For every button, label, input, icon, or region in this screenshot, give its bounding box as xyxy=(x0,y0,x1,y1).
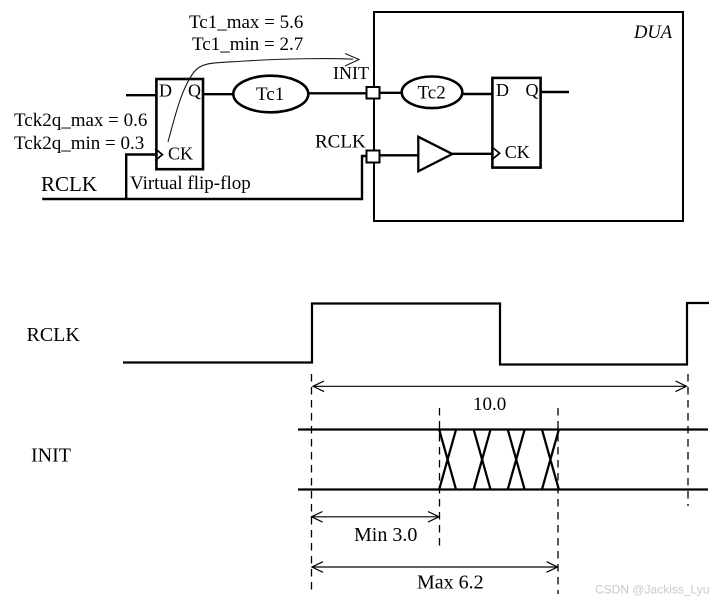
delay element Tc2 xyxy=(402,77,463,109)
INIT bus top line xyxy=(298,428,708,430)
dimension arrow Min 3.0 xyxy=(312,516,440,518)
bus transition X1 xyxy=(439,430,456,489)
svg-text:RCLK: RCLK xyxy=(315,132,366,153)
dashed guide line at second rising edge xyxy=(687,374,689,506)
clock wedge of U2 xyxy=(491,146,499,160)
wire: INIT node to Tc2 xyxy=(380,92,404,94)
clock wedge of U1 xyxy=(155,149,162,161)
flip-flop U1 (virtual flip-flop) body xyxy=(156,79,203,169)
wire: Q output of U2 xyxy=(540,91,569,93)
DUA box xyxy=(374,12,683,221)
wire: Q of U1 to Tc1 xyxy=(202,93,234,95)
svg-text:Tc1_max = 5.6: Tc1_max = 5.6 xyxy=(189,12,303,33)
svg-text:Min 3.0: Min 3.0 xyxy=(354,524,417,546)
svg-text:Max 6.2: Max 6.2 xyxy=(417,572,484,594)
RCLK waveform trace xyxy=(123,303,709,365)
svg-text:Tck2q_max = 0.6: Tck2q_max = 0.6 xyxy=(14,110,147,131)
wire: buffer to U2 CK xyxy=(453,153,493,155)
svg-text:INIT: INIT xyxy=(333,63,369,83)
svg-text:CSDN @Jackiss_Lyu: CSDN @Jackiss_Lyu xyxy=(595,583,709,597)
annotation curved arrow from CK to INIT xyxy=(168,59,353,142)
dashed guide line at min transition start xyxy=(439,408,441,550)
svg-text:RCLK: RCLK xyxy=(41,172,97,196)
bus transition X3 xyxy=(508,430,525,489)
wire: RCLK node to buffer xyxy=(380,154,420,156)
dimension arrow 10.0 xyxy=(313,385,687,387)
flip-flop U2 body xyxy=(492,78,540,168)
dashed guide line at first rising edge xyxy=(311,374,313,594)
buffer U3 xyxy=(418,137,452,172)
delay element Tc1 xyxy=(233,76,308,113)
wire: Tc1 to INIT node xyxy=(307,92,367,94)
svg-text:Q: Q xyxy=(526,80,539,100)
wire: RCLK branch up to U1 CK xyxy=(126,155,155,200)
dimension arrow Max 6.2 xyxy=(312,566,558,568)
svg-text:RCLK: RCLK xyxy=(27,324,81,346)
svg-text:D: D xyxy=(159,81,172,101)
bus transition X2 xyxy=(474,430,491,489)
svg-text:CK: CK xyxy=(505,142,530,162)
node INIT (boundary square) xyxy=(367,87,380,99)
svg-text:Tc1_min = 2.7: Tc1_min = 2.7 xyxy=(192,34,303,55)
svg-text:DUA: DUA xyxy=(633,23,673,43)
wire: D input of virtual flip-flop U1 xyxy=(126,94,157,96)
node RCLK (boundary square) xyxy=(367,151,380,163)
svg-text:10.0: 10.0 xyxy=(473,394,506,415)
INIT bus bottom line xyxy=(298,488,708,490)
svg-text:Tck2q_min = 0.3: Tck2q_min = 0.3 xyxy=(14,133,144,154)
svg-text:Tc1: Tc1 xyxy=(256,84,284,105)
svg-text:Tc2: Tc2 xyxy=(418,83,446,104)
svg-text:CK: CK xyxy=(168,144,193,164)
dashed guide line at max transition end xyxy=(557,408,559,594)
svg-text:Virtual flip-flop: Virtual flip-flop xyxy=(130,173,251,194)
wire: Tc2 to U2 D input xyxy=(463,93,494,95)
bus transition X4 xyxy=(542,430,559,489)
svg-text:INIT: INIT xyxy=(31,445,71,467)
svg-text:D: D xyxy=(496,80,509,100)
svg-text:Q: Q xyxy=(188,81,201,101)
wire: RCLK input run to DUA boundary xyxy=(42,156,366,199)
